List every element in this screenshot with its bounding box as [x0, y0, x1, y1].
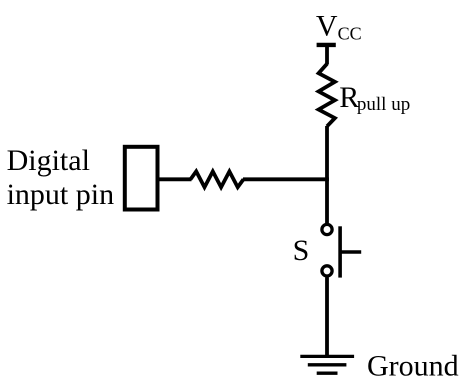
svg-text:Rpull up: Rpull up: [339, 81, 410, 115]
switch S bottom contact circle: [322, 266, 332, 276]
wire box to series resistor: [158, 177, 192, 181]
wire switch to ground: [325, 277, 329, 356]
resistor R pull-up zigzag: [319, 64, 335, 127]
ground symbol top line: [300, 355, 354, 358]
ground symbol bottom line: [317, 372, 338, 375]
svg-text:S: S: [293, 234, 310, 267]
power terminal VCC bar: [317, 43, 336, 47]
wire series resistor to junction node: [243, 177, 329, 181]
digital input pin box: [125, 147, 158, 210]
switch S top contact circle: [322, 224, 332, 234]
svg-text:Digital: Digital: [7, 144, 90, 177]
svg-text:VCC: VCC: [316, 9, 362, 43]
wire resistor to junction and switch: [325, 126, 329, 223]
wire VCC bar to resistor: [325, 45, 329, 65]
switch S actuator bar: [338, 226, 342, 277]
series resistor zigzag: [191, 171, 244, 187]
switch S actuator stub: [340, 250, 361, 254]
svg-text:Ground: Ground: [367, 350, 459, 383]
ground symbol middle line: [308, 363, 347, 366]
svg-text:input pin: input pin: [7, 178, 115, 211]
